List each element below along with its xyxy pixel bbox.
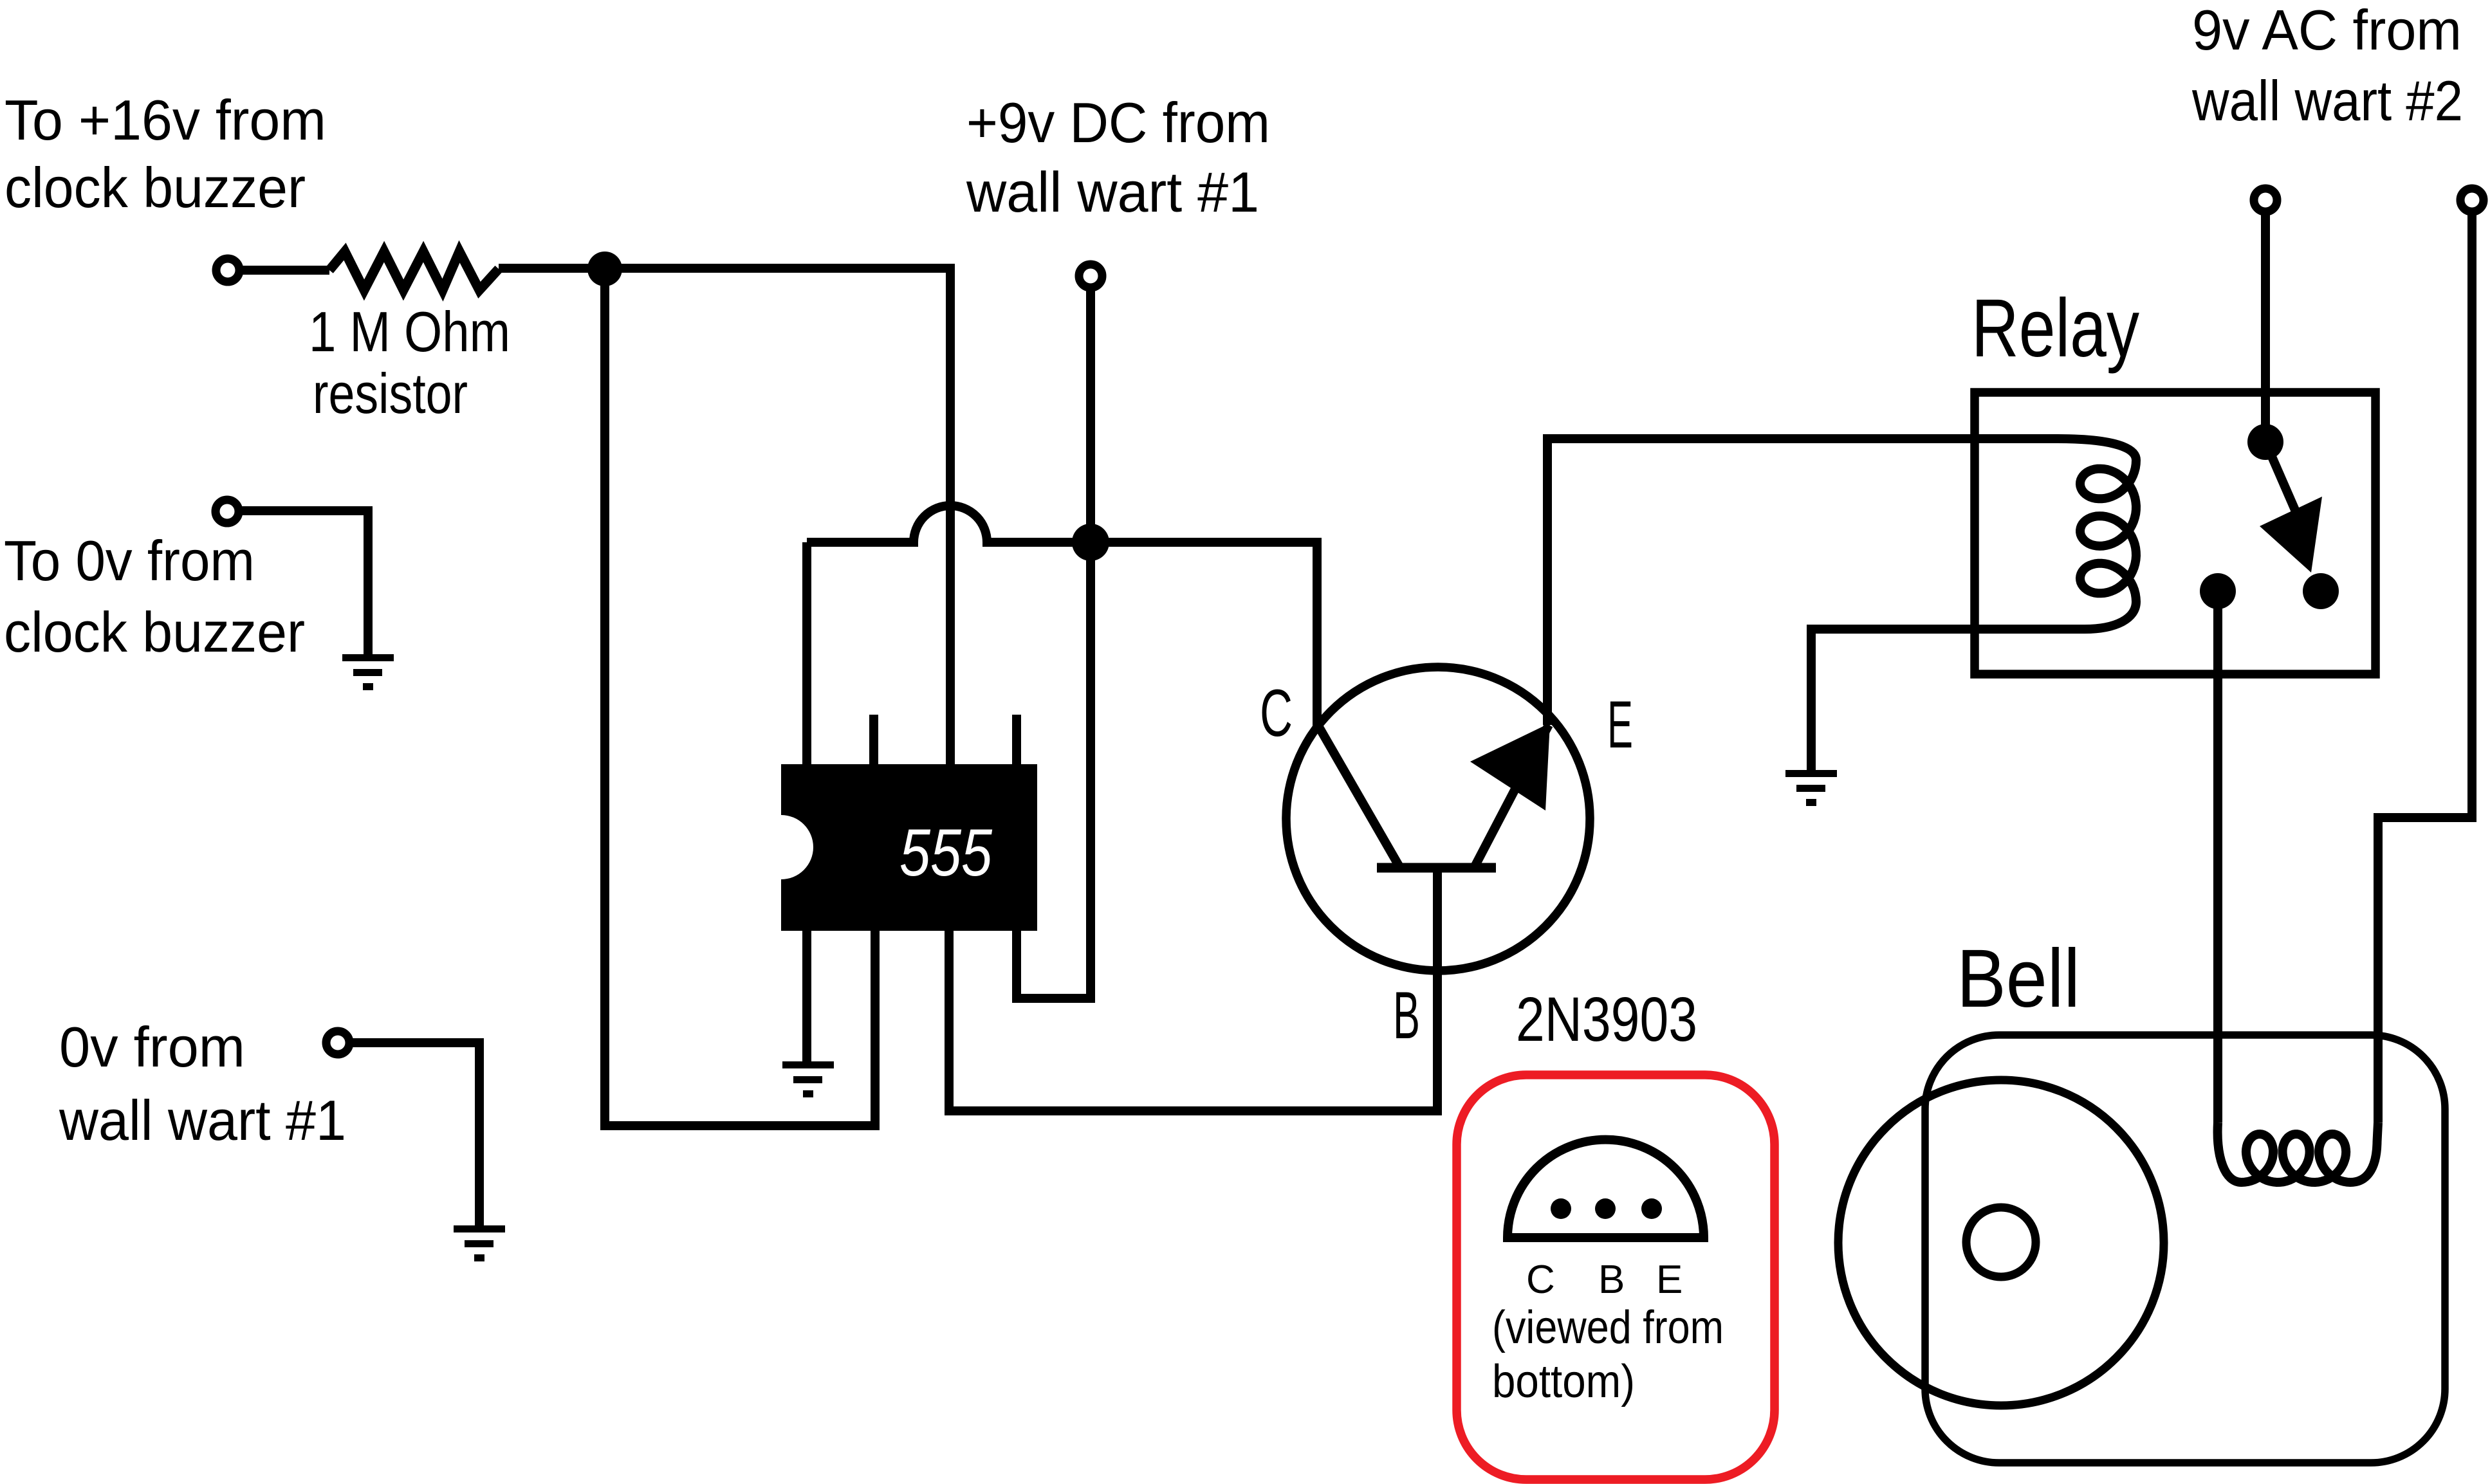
svg-text:B: B — [1393, 978, 1420, 1053]
terminal T4 (+9v DC) — [1079, 264, 1102, 288]
svg-text:To +16v from: To +16v from — [5, 88, 326, 152]
wire: relay contact to bell coil — [2213, 605, 2222, 1122]
Q1 emitter diagonal — [1474, 725, 1549, 868]
terminal T3 (0v wall wart 1) — [326, 1031, 349, 1054]
bell hub circle — [1966, 1207, 2036, 1277]
terminal T1 (+16v input) — [216, 259, 239, 282]
wire: resistor to 555 pin (down at x1477) — [499, 268, 950, 764]
junction J2 — [1072, 524, 1109, 561]
svg-text:0v from: 0v from — [59, 1015, 245, 1079]
svg-text:C: C — [1526, 1258, 1555, 1302]
555 pin stub top b — [1012, 715, 1021, 764]
bell coil — [2218, 1122, 2378, 1182]
svg-text:Bell: Bell — [1957, 933, 2080, 1025]
bell body — [1925, 1035, 2445, 1463]
relay switch blade arrow — [2260, 497, 2322, 573]
svg-text:555: 555 — [899, 816, 993, 890]
resistor R1 1 M Ohm — [329, 252, 499, 290]
Q1 package bottom view semicircle — [1508, 1140, 1704, 1238]
node label: To 0v from clock buzzer — [4, 529, 305, 664]
part label 2N3903 pinout box (red) — [1457, 1075, 1775, 1479]
node label: 0v from wall wart #1 — [59, 1015, 346, 1152]
svg-text:B: B — [1598, 1258, 1625, 1302]
svg-text:9v AC from: 9v AC from — [2192, 0, 2462, 62]
bell gong circle — [1838, 1080, 2164, 1406]
wire: J1 down, across, up to 555 bottom pin 2 — [605, 269, 875, 1126]
relay switch pivot dot — [2247, 424, 2283, 460]
wire: +9v rail with hop over x1477, to transistor collector — [807, 506, 1317, 731]
svg-text:C: C — [1260, 676, 1293, 751]
terminal T6 (9v AC right) — [2460, 188, 2484, 212]
Q1 collector diagonal — [1320, 728, 1400, 868]
node label: 9v AC from wall wart #2 — [2191, 0, 2463, 133]
node label: +9v DC from wall wart #1 — [966, 91, 1270, 224]
ground (relay coil) — [1785, 770, 1837, 806]
wire: T1 to resistor — [239, 266, 329, 275]
Q1 base bar — [1377, 863, 1496, 873]
terminal T5 (9v AC left) — [2254, 188, 2277, 212]
wire: T6 down, left, down into bell — [2378, 212, 2472, 1122]
555 pin 1 to ground — [802, 931, 811, 1061]
svg-text:wall wart #2: wall wart #2 — [2191, 69, 2463, 133]
svg-text:To 0v from: To 0v from — [4, 529, 255, 592]
Q1 emitter arrow — [1470, 723, 1550, 811]
node label: To +16v from clock buzzer — [5, 88, 326, 219]
wire: T4 down to junction J2 and on down to 555 pin 8 — [1017, 288, 1091, 998]
relay switch blade — [2265, 442, 2302, 526]
svg-text:resistor: resistor — [313, 362, 468, 425]
relay box — [1975, 392, 2375, 674]
value label: 1 M Ohm resistor — [309, 300, 510, 425]
svg-text:clock buzzer: clock buzzer — [4, 600, 305, 664]
package pin dots — [1551, 1198, 1662, 1219]
IC U1 555 timer body — [749, 764, 1037, 931]
ground (wall wart #1) — [454, 1225, 505, 1261]
ground (clock buzzer 0v) — [342, 654, 394, 690]
package pin labels C B E — [1526, 1258, 1683, 1302]
svg-text:clock buzzer: clock buzzer — [5, 156, 306, 219]
555 pin stub top a — [869, 715, 878, 764]
svg-text:2N3903: 2N3903 — [1516, 984, 1697, 1054]
relay contact dot (left, to bell) — [2200, 573, 2236, 609]
caption: (viewed from bottom) — [1492, 1302, 1724, 1407]
svg-text:Relay: Relay — [1971, 282, 2139, 374]
junction J1 — [587, 252, 622, 286]
wire: T3 to ground — [349, 1043, 479, 1225]
svg-text:wall wart #1: wall wart #1 — [966, 160, 1259, 224]
555 pin 4 wire (top-left, up to +9v rail) — [802, 542, 811, 764]
svg-text:wall wart #1: wall wart #1 — [59, 1088, 346, 1152]
relay contact dot (right, moving) — [2303, 573, 2339, 609]
wire: T2 to ground — [239, 511, 368, 654]
svg-text:E: E — [1607, 688, 1633, 762]
relay coil L1 — [1547, 439, 2136, 772]
svg-text:1 M Ohm: 1 M Ohm — [309, 300, 510, 363]
wire: 555 output pin 3 to transistor base — [949, 868, 1437, 1111]
transistor Q1 circle — [1286, 667, 1590, 971]
svg-text:E: E — [1656, 1258, 1683, 1302]
terminal T2 (0v clock buzzer) — [216, 500, 239, 523]
ground (555 pin 1) — [782, 1061, 834, 1097]
wire: T5 to switch pivot — [2261, 212, 2270, 442]
svg-text:(viewed from: (viewed from — [1492, 1302, 1724, 1353]
svg-text:bottom): bottom) — [1492, 1356, 1635, 1407]
svg-text:+9v DC from: +9v DC from — [966, 91, 1270, 154]
